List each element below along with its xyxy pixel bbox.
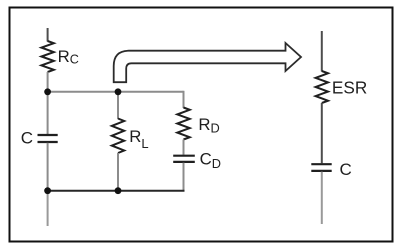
node dot top-middle	[115, 88, 122, 95]
wire RL to bottom rail	[117, 153, 119, 191]
wire top rail	[48, 91, 184, 93]
capacitor C right	[311, 164, 331, 171]
wire capacitor C to bottom rail	[47, 143, 49, 191]
wire ESR to capacitor C	[321, 103, 323, 163]
node dot top-left	[44, 88, 51, 95]
resistor RL	[112, 119, 124, 154]
wire top stub above RC	[47, 28, 49, 42]
svg-text:ESR: ESR	[332, 77, 367, 97]
wire CD to bottom rail	[183, 163, 185, 191]
wire RD to CD	[183, 140, 185, 155]
wire RC to top rail	[47, 72, 49, 92]
wire below capacitor C right	[321, 172, 323, 224]
wire top rail to capacitor C	[47, 92, 49, 134]
wire top rail corner to RD	[183, 91, 185, 108]
capacitor CD	[173, 156, 195, 162]
wire top stub right circuit	[321, 31, 323, 72]
wire bottom rail	[47, 190, 185, 192]
wire top rail to RL	[117, 92, 119, 119]
svg-text:C: C	[21, 129, 33, 148]
wire bottom stub below node	[47, 191, 49, 226]
arrow (bent hollow arrow)	[114, 43, 301, 82]
resistor RC	[41, 41, 53, 72]
node dot bottom-left	[44, 187, 51, 194]
node dot bottom-middle	[115, 187, 122, 194]
resistor RD	[177, 108, 189, 140]
svg-text:C: C	[340, 160, 352, 179]
capacitor C	[38, 135, 58, 142]
resistor ESR	[316, 71, 328, 103]
